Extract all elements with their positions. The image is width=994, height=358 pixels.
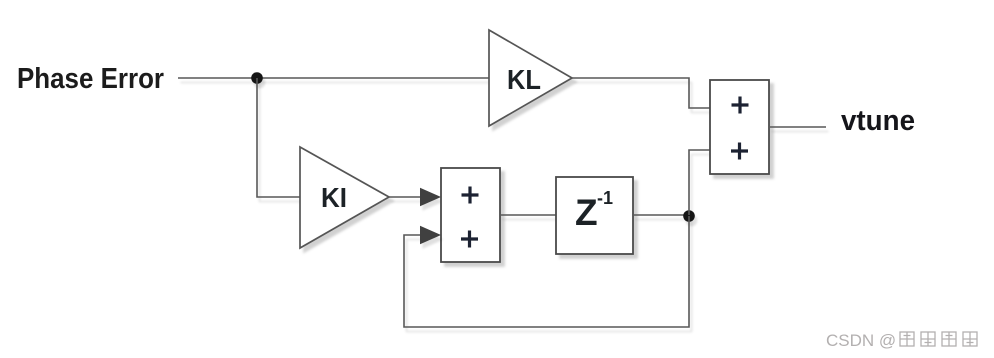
plus sign U2 top — [732, 97, 749, 114]
watermark: CSDN @ author — [826, 331, 977, 350]
wire: Phase Error to junction J1 — [178, 77, 257, 79]
svg-text:-1: -1 — [597, 188, 613, 208]
wire: feedback from junction J2 around to summer U1 second input — [404, 216, 689, 327]
wire: summer U1 output to Z-1 input — [500, 214, 556, 216]
wire: KL output to summer U2 first input — [572, 78, 710, 108]
node junction J1 — [251, 72, 263, 84]
svg-text:KL: KL — [507, 64, 541, 95]
gain block KL (triangle) — [489, 30, 572, 126]
wire: junction J1 down and right to KI input — [257, 78, 300, 197]
svg-text:KI: KI — [321, 182, 347, 213]
svg-text:Phase Error: Phase Error — [17, 63, 164, 95]
arrowhead into summer U1 second input — [420, 226, 441, 244]
gain block KI (triangle) — [300, 147, 389, 248]
delay block Z^-1 — [556, 177, 633, 254]
svg-text:vtune: vtune — [841, 105, 915, 137]
wire: KI output to summer U1 first input — [389, 196, 423, 198]
summer U2 (rectangle with + +) — [710, 80, 769, 174]
svg-text:CSDN @: CSDN @ — [826, 331, 896, 350]
wire: junction J2 up and right to summer U2 second input — [689, 150, 710, 215]
node junction J2 — [683, 210, 695, 222]
plus sign U2 bottom — [731, 143, 748, 160]
plus sign U1 bottom — [461, 231, 478, 248]
arrowhead into summer U1 first input — [420, 188, 441, 206]
wire: Z-1 output to junction J2 — [633, 214, 689, 216]
plus sign U1 top — [462, 187, 479, 204]
svg-text:Z: Z — [575, 192, 598, 233]
summer U1 (rectangle with + +) — [441, 168, 500, 262]
wire: summer U2 output to vtune — [769, 126, 826, 128]
wire: junction J1 to KL input — [257, 77, 489, 79]
